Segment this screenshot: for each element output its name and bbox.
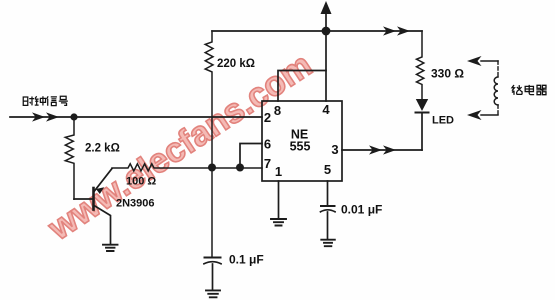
- wire pin 8 connection: [278, 71, 326, 102]
- svg-text:3: 3: [331, 142, 338, 157]
- wire pin 6 connection: [240, 144, 262, 168]
- capacitor C1 0.1 uF: [204, 258, 221, 291]
- relay coil with dashed leads: [497, 61, 499, 77]
- node C pin6 tie junction: [236, 164, 244, 172]
- svg-text:LED: LED: [432, 115, 454, 127]
- arrow relay top: [481, 60, 498, 62]
- capacitor C2 0.01 uF: [321, 206, 336, 239]
- wire Vcc to pin 4: [325, 31, 327, 101]
- svg-text:2N3906: 2N3906: [116, 198, 155, 210]
- relay connection arrows and coil: [467, 56, 498, 120]
- watermark www.elecfans.com: [41, 46, 319, 248]
- svg-text:8: 8: [274, 103, 281, 118]
- svg-text:5: 5: [324, 162, 331, 177]
- svg-text:6: 6: [264, 137, 271, 152]
- arrow clock direction (double arrowheads): [32, 112, 59, 121]
- svg-text:330 Ω: 330 Ω: [431, 67, 464, 81]
- svg-text:0.01 μF: 0.01 μF: [341, 203, 382, 217]
- wire R1 to base: [74, 198, 94, 200]
- IC U1 NE555: [262, 101, 342, 181]
- svg-text:220 kΩ: 220 kΩ: [217, 58, 255, 70]
- node A clock / R1 junction: [70, 113, 77, 120]
- label 时钟信号 (clock signal): [23, 96, 68, 106]
- svg-text:555: 555: [290, 140, 311, 154]
- svg-text:2: 2: [264, 110, 271, 125]
- arrow pin3 (double arrowheads): [369, 145, 396, 154]
- svg-text:0.1 μF: 0.1 μF: [229, 253, 264, 267]
- LED D1: [416, 99, 429, 150]
- wire top rail: [212, 30, 422, 32]
- resistor R4 330 ohm: [417, 31, 424, 100]
- arrow relay bottom: [481, 114, 498, 116]
- resistor R2 100 ohm: [112, 164, 262, 171]
- label 继电器 (relay): [512, 85, 547, 95]
- svg-text:1: 1: [275, 164, 282, 179]
- ground (Q1 collector): [103, 245, 118, 251]
- power arrow Vcc: [321, 1, 332, 31]
- ground (C2): [321, 240, 335, 247]
- svg-text:100 Ω: 100 Ω: [126, 176, 156, 188]
- svg-text:2.2 kΩ: 2.2 kΩ: [85, 143, 120, 155]
- resistor R3 220 kohm: [205, 31, 213, 257]
- svg-text:7: 7: [264, 156, 271, 171]
- transistor Q1 2N3906 (PNP): [94, 169, 113, 245]
- ground (C1): [206, 290, 220, 297]
- node B R3/C1 junction on pin7 line: [208, 164, 216, 172]
- resistor R1 2.2 kohm: [65, 117, 74, 199]
- svg-text:4: 4: [322, 102, 330, 117]
- ground (pin 1): [271, 219, 286, 226]
- wire pin 1 to ground: [278, 181, 280, 219]
- wire pin 3 output: [342, 149, 422, 151]
- node D Vcc junction: [322, 27, 331, 36]
- arrow top rail (double arrowheads): [383, 26, 410, 35]
- wire pin 5 lead: [327, 181, 329, 205]
- wire clock input line: [10, 116, 262, 118]
